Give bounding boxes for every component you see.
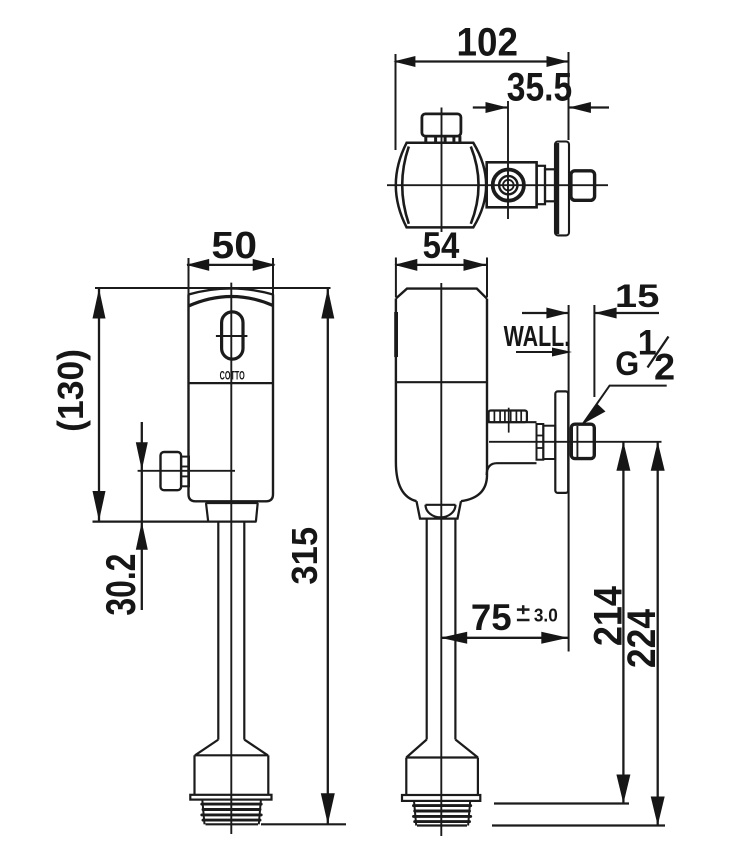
outlet collar trapezoid front view: [205, 503, 258, 522]
front view: body outline: [189, 295, 274, 502]
inlet pipe section: [543, 426, 555, 459]
barrel inner left contour arc: [402, 147, 409, 224]
bleed screw ribbed block: [489, 411, 527, 423]
screw cover middle ring: [499, 176, 517, 194]
sensor window oval: [222, 312, 243, 359]
dimension 50 extension lines: [188, 258, 190, 296]
dimension 75 line with arrows: [441, 637, 569, 639]
dimension 54 extension lines: [395, 258, 397, 298]
inlet centerline side view: [489, 441, 662, 443]
wall pointer arrow: [516, 351, 566, 353]
svg-text:54: 54: [423, 225, 460, 266]
wall flange plate (side view): [555, 391, 568, 493]
svg-text:COTTO: COTTO: [220, 370, 245, 383]
inlet arm underside with fillet: [487, 463, 537, 475]
dimension 214 vertical line with arrows: [622, 442, 624, 804]
svg-text:15: 15: [615, 277, 659, 314]
dimension tolerance plus-minus: [517, 608, 530, 611]
screw cover inner circle: [503, 180, 514, 191]
svg-text:G: G: [615, 344, 639, 382]
dimension 224 vertical line with arrows: [657, 442, 659, 826]
solenoid screw housing block: [487, 162, 537, 207]
side view: body top edge with chamfers: [396, 289, 487, 299]
svg-text:102: 102: [456, 21, 517, 65]
top view: vertical centerline through cap: [441, 108, 443, 233]
front view: body mid separation line: [189, 382, 274, 384]
inlet arm top edge: [487, 421, 537, 423]
down tube right edge side: [454, 519, 456, 740]
barrel inner right contour arc: [471, 147, 479, 224]
svg-text:(130): (130): [50, 349, 92, 432]
thread ridges front: [202, 800, 261, 825]
wall flange thick left edge: [555, 143, 559, 234]
hex inner face line side: [576, 426, 578, 457]
svg-text:224: 224: [620, 609, 665, 668]
dimension 35.5 line with outside arrows: [473, 106, 508, 108]
button centerline: [138, 470, 235, 472]
svg-text:35.5: 35.5: [507, 65, 572, 109]
hex face extension (right of 15): [593, 305, 595, 397]
manual button cap: [161, 452, 182, 490]
wall flange plate (top view): [555, 142, 569, 236]
thread ridges side: [414, 801, 470, 826]
svg-text:30.2: 30.2: [98, 554, 144, 616]
top extension line for (130) and 315: [95, 287, 331, 289]
outlet collar step 2: [545, 169, 555, 201]
cap of valve (top view): [422, 114, 461, 136]
leader line from G 1/2 to hex: [584, 386, 667, 423]
dimension 54 line with arrows: [395, 264, 487, 266]
thread bottom edge front: [206, 823, 259, 825]
side view: body outline right: [461, 299, 487, 502]
down tube left edge side: [426, 519, 428, 740]
spreader funnel flare front: [195, 740, 218, 756]
down tube right edge front: [243, 522, 245, 740]
collar bottom line + 30.2 extension line: [93, 520, 257, 522]
svg-text:50: 50: [211, 225, 257, 267]
dimension 102/35.5 right extension line: [568, 52, 570, 140]
side view: body outline left: [396, 299, 417, 502]
extension line at spreader flange bottom for 214: [494, 802, 629, 804]
wall line extension (left of 15): [568, 305, 570, 652]
side view: vertical centerline: [440, 283, 442, 836]
dimension 102 line with arrows: [395, 60, 569, 62]
outlet mouth trapezoid: [417, 501, 462, 518]
outlet mouth gasket dome: [426, 505, 456, 518]
valve barrel body (top view): [396, 143, 486, 228]
dimension 15 line with outside arrows: [522, 312, 569, 314]
svg-text:75: 75: [471, 597, 512, 638]
front view: vertical centerline: [230, 283, 232, 834]
front view: top inner arc bold: [189, 296, 274, 306]
cap serration teeth: [424, 136, 427, 143]
bottom extension line for 315: [261, 823, 346, 825]
bleed screw ribs: [493, 411, 495, 423]
dimension 102 left extension line: [395, 54, 397, 150]
dimension (130) vertical line with arrows: [98, 289, 100, 522]
spreader funnel flare side: [406, 740, 426, 758]
outlet collar step 1: [537, 166, 545, 204]
down tube left edge front: [217, 522, 219, 740]
hex inlet fitting (side view) bold: [571, 424, 594, 458]
inlet thread collar: [537, 424, 544, 460]
extension line at thread end for 224: [492, 824, 665, 826]
spreader flange band side: [402, 795, 480, 801]
screw cover outer ring: [493, 170, 524, 201]
dimension 50 line with arrows: [187, 264, 275, 266]
svg-text:WALL.: WALL.: [504, 321, 571, 353]
dimension 315 vertical line with arrows: [327, 289, 329, 825]
thread bottom edge side: [417, 824, 467, 826]
side view: left edge bold highlight: [394, 312, 398, 357]
label G 1/2 - fraction slash: [648, 337, 669, 368]
spreader cylinder front: [195, 754, 269, 756]
svg-text:3.0: 3.0: [534, 605, 558, 626]
hex inlet fitting (top view): [571, 171, 595, 201]
dimension 30.2 vertical line: [141, 422, 143, 610]
svg-text:2: 2: [654, 346, 675, 388]
front view: top outer arc: [189, 289, 274, 295]
top view: vertical centerline through screw cover: [507, 101, 509, 219]
side view: body mid line: [396, 381, 487, 383]
leader arrowhead at hex: [582, 404, 606, 425]
spreader cylinder side: [406, 756, 478, 758]
sensor oval horizontal centerline: [216, 335, 248, 337]
top view: horizontal centerline of valve axis: [387, 184, 608, 186]
svg-text:315: 315: [286, 527, 326, 585]
manual button stem with thread lines: [181, 457, 189, 487]
spreader flange band front: [190, 795, 271, 800]
bleed screw centerline tick: [508, 408, 510, 433]
